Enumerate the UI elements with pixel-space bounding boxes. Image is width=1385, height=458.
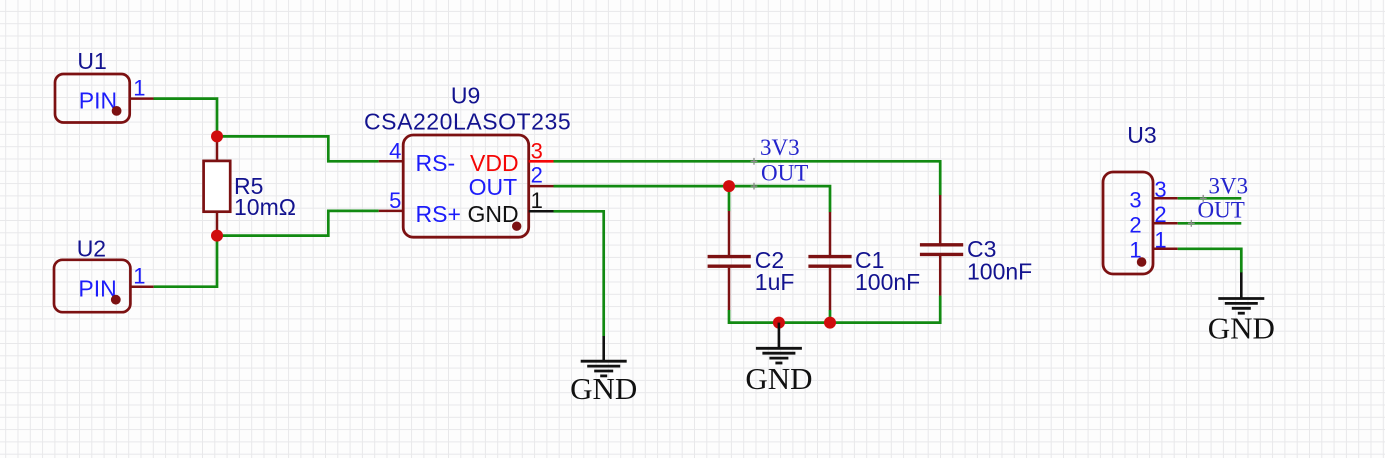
U9 pin 2 stub [529, 185, 554, 188]
svg-text:2: 2 [1154, 202, 1166, 227]
wire junction B to U9 pin 5 [217, 211, 379, 236]
svg-text:3V3: 3V3 [1209, 174, 1249, 199]
svg-text:CSA220LASOT235: CSA220LASOT235 [364, 108, 571, 134]
svg-text:1: 1 [133, 264, 145, 289]
svg-text:U1: U1 [77, 48, 106, 74]
wire U9 pin1 to ground [554, 211, 604, 336]
wire U1 pin to junction A [154, 99, 218, 137]
svg-text:1: 1 [1154, 228, 1166, 253]
svg-text:2: 2 [531, 162, 543, 187]
wire U2 pin to junction B [154, 236, 217, 287]
svg-text:1uF: 1uF [755, 269, 795, 295]
svg-text:10mΩ: 10mΩ [234, 194, 296, 220]
connector U1 [55, 48, 130, 123]
svg-text:PIN: PIN [79, 87, 117, 113]
svg-text:100nF: 100nF [855, 269, 920, 295]
svg-text:1: 1 [531, 188, 543, 213]
svg-text:100nF: 100nF [967, 259, 1032, 285]
U1 pin origin dot [112, 106, 122, 116]
wire U3 pin2 (net OUT) [1178, 222, 1242, 225]
svg-text:5: 5 [389, 188, 401, 213]
svg-text:PIN: PIN [78, 275, 116, 301]
svg-text:GND: GND [467, 201, 518, 227]
junction D (GND tap) [773, 317, 785, 329]
wire U9 pin3 to C3 (net 3V3) [554, 161, 941, 195]
wire U9 pin2 to C1 (net OUT) [554, 186, 831, 212]
capacitor C3 [920, 195, 1032, 296]
U9 pin 1 stub GND [529, 210, 554, 213]
svg-text:3V3: 3V3 [760, 135, 800, 160]
connector U2 [54, 235, 130, 312]
svg-text:3: 3 [531, 138, 543, 163]
svg-text:3: 3 [1154, 177, 1166, 202]
junction A [211, 130, 223, 142]
net label 3V3 anchor [751, 158, 758, 165]
wire junction A to U9 pin 4 [217, 136, 379, 161]
capacitor C2 [708, 211, 795, 310]
connector U3 [1103, 122, 1157, 274]
svg-text:RS-: RS- [416, 150, 456, 176]
U2 pin 1 stub [130, 285, 153, 288]
svg-text:4: 4 [389, 139, 401, 164]
svg-text:U3: U3 [1127, 122, 1156, 148]
wire C2 bottom [729, 310, 779, 323]
svg-text:OUT: OUT [469, 174, 518, 200]
U3 pin 2 stub [1153, 222, 1178, 225]
svg-text:RS+: RS+ [416, 201, 461, 227]
svg-text:1: 1 [133, 75, 145, 100]
svg-text:U2: U2 [77, 235, 106, 261]
U3 pin 1 stub [1153, 248, 1178, 251]
svg-text:U9: U9 [451, 83, 480, 109]
svg-text:VDD: VDD [470, 150, 519, 176]
svg-text:GND: GND [1208, 311, 1275, 346]
resistor R5 [204, 136, 296, 235]
svg-text:OUT: OUT [761, 160, 808, 185]
wire C1 bottom [829, 310, 832, 323]
junction B [211, 230, 223, 242]
U3 pin 3 stub [1153, 197, 1178, 200]
wire U3 pin3 (net 3V3) [1178, 197, 1242, 200]
net label OUT anchor (U3) [1188, 220, 1195, 227]
net label 3V3 anchor (U3) [1200, 195, 1207, 202]
ground (capacitor rail) [778, 323, 781, 349]
junction E (C1 bottom) [824, 317, 836, 329]
svg-text:2: 2 [1129, 212, 1141, 237]
wire C3 bottom to GND rail [779, 296, 940, 323]
capacitor C1 [808, 212, 920, 310]
ground (U3 pin1) [1240, 272, 1243, 298]
svg-text:OUT: OUT [1198, 197, 1245, 222]
U1 pin 1 stub [130, 97, 154, 100]
U3 pin origin dot [1137, 257, 1147, 267]
svg-text:GND: GND [570, 371, 637, 406]
svg-text:3: 3 [1129, 187, 1141, 212]
net label OUT anchor [751, 183, 758, 190]
svg-text:GND: GND [745, 361, 812, 396]
U9 pin 5 stub [379, 210, 404, 213]
wire U3 pin1 to ground [1178, 249, 1242, 273]
op-amp U9 CSA220LASOT235 [364, 83, 571, 238]
U9 pin 3 stub VDD [529, 160, 554, 163]
junction C [723, 180, 735, 192]
U2 pin origin dot [111, 295, 121, 305]
U9 pin origin dot [512, 222, 521, 231]
wire junction C to C2 [728, 186, 731, 211]
ground (U9 pin1) [602, 336, 605, 361]
U9 pin 4 stub [379, 160, 404, 163]
